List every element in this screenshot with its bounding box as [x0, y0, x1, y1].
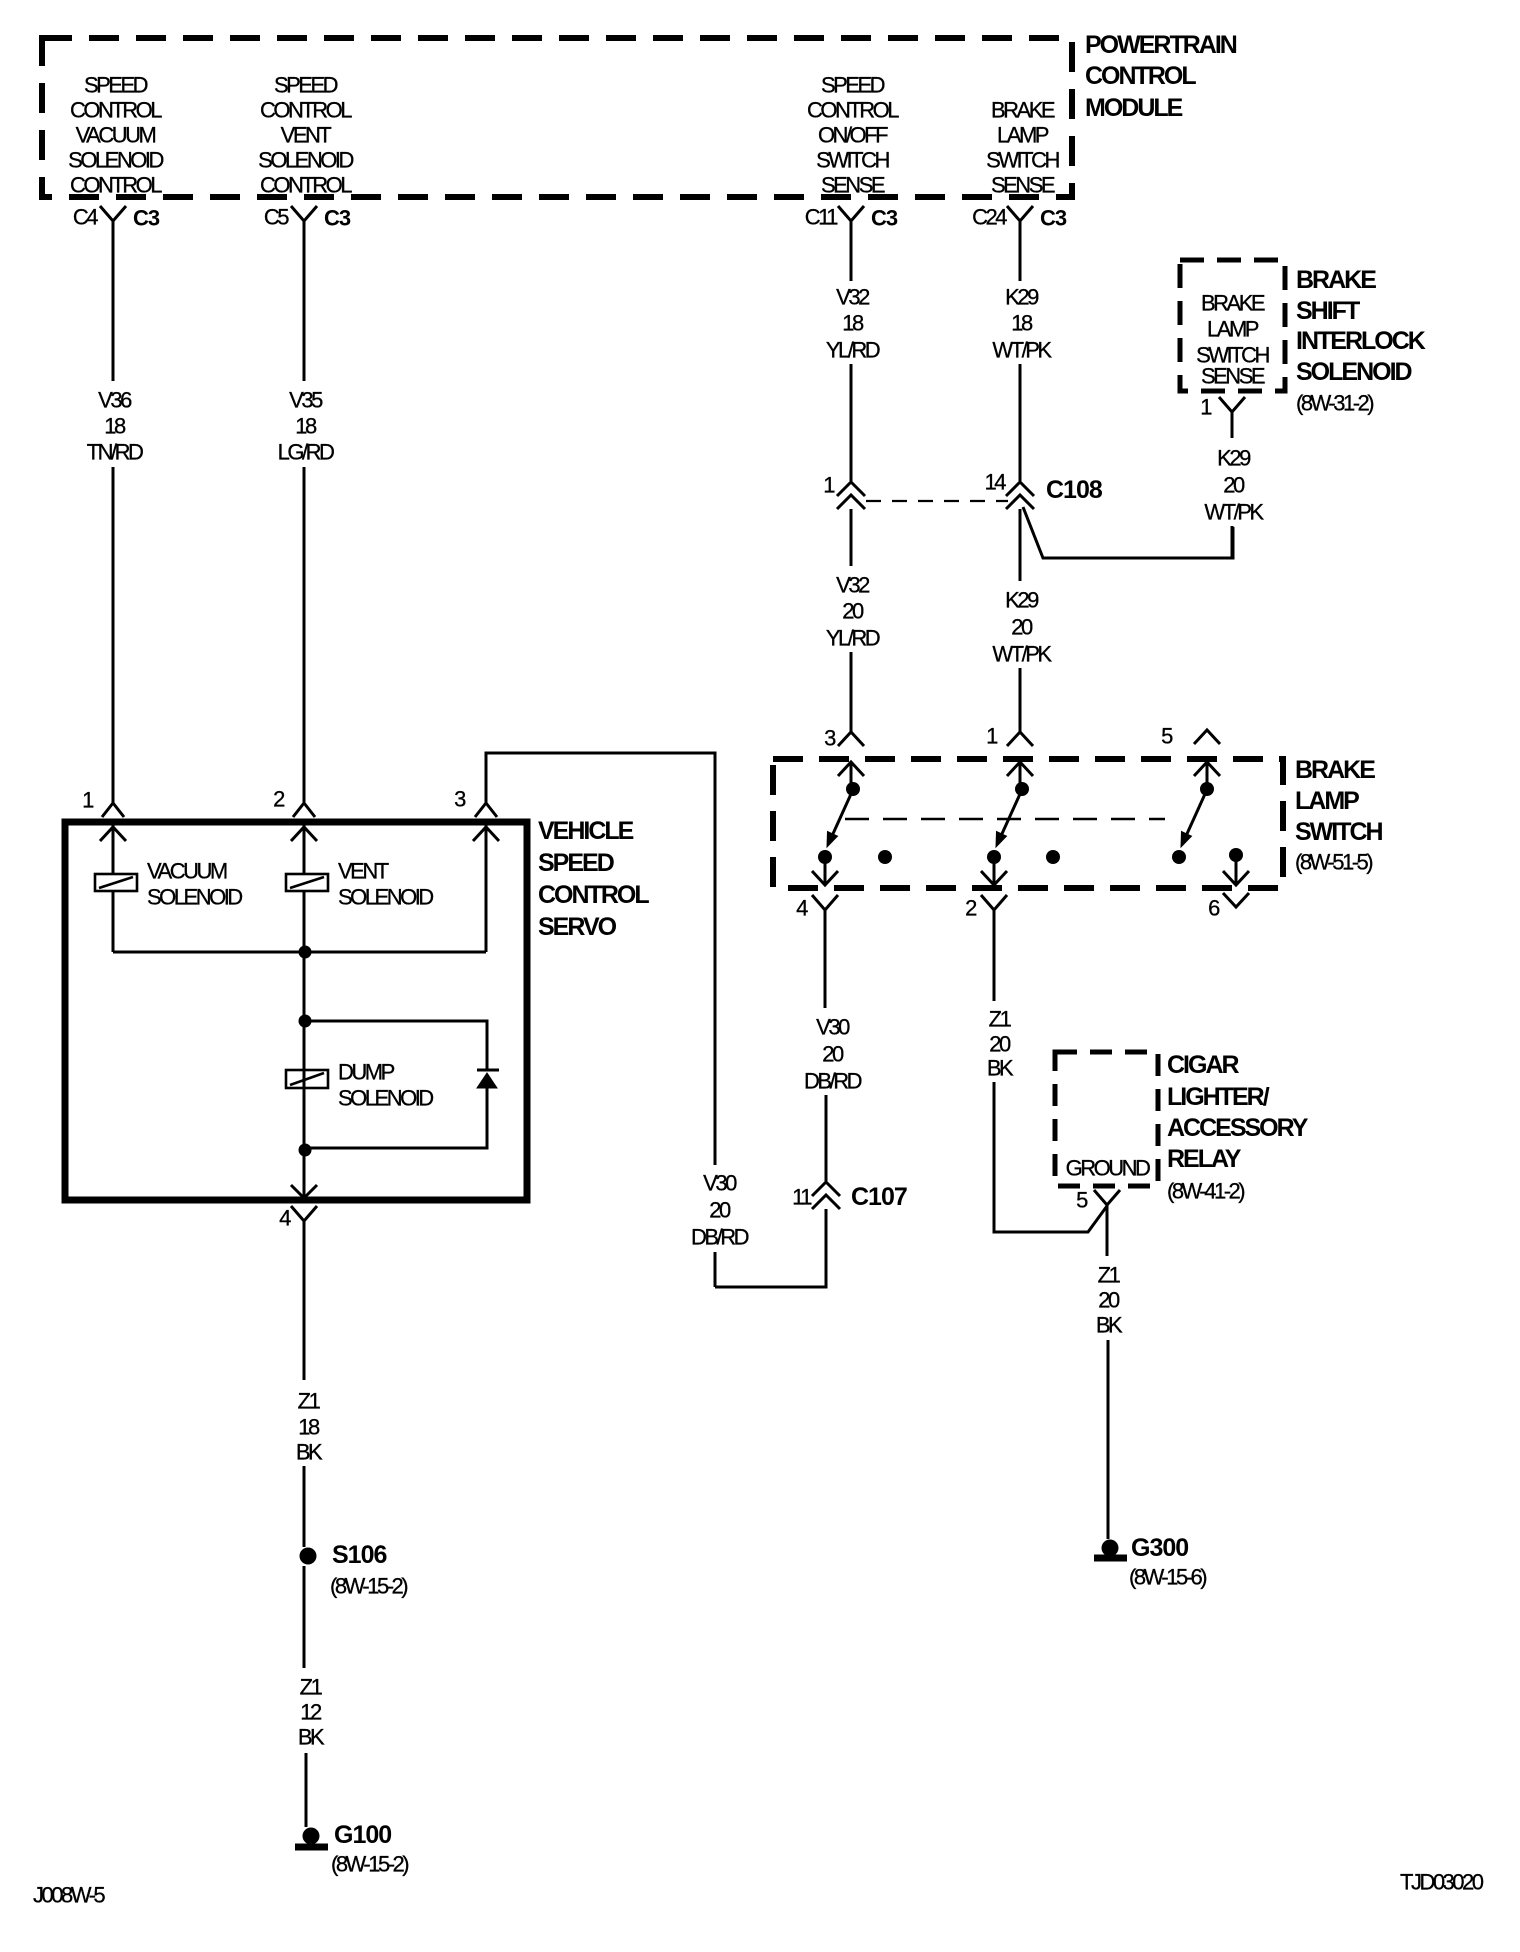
servo pin 2 connector Y — [293, 803, 315, 817]
svg-text:Z1: Z1 — [1098, 1263, 1121, 1288]
wire C108 to brake shift interlock branch — [1023, 507, 1233, 558]
wire label K29 20 WT/PK interlock — [1204, 446, 1264, 525]
svg-text:WT/PK: WT/PK — [992, 338, 1052, 363]
vacuum solenoid symbol — [95, 874, 137, 891]
svg-text:YL/RD: YL/RD — [826, 626, 880, 651]
svg-text:V32: V32 — [836, 285, 870, 310]
svg-text:BK: BK — [296, 1440, 323, 1465]
svg-text:CONTROL: CONTROL — [70, 173, 162, 198]
servo pin 4 arrow inside — [291, 1185, 317, 1198]
wire V36 lower segment — [112, 467, 115, 803]
wire label K29 20 WT/PK — [992, 588, 1052, 667]
svg-text:ON/OFF: ON/OFF — [818, 123, 888, 148]
switch idle dot right — [1046, 850, 1060, 864]
svg-text:SOLENOID: SOLENOID — [68, 148, 163, 173]
wire label V32 18 YL/RD — [826, 285, 880, 363]
svg-text:Z1: Z1 — [989, 1007, 1012, 1032]
svg-text:V32: V32 — [836, 573, 870, 598]
svg-text:J008W-5: J008W-5 — [33, 1883, 105, 1908]
wire V32 20 upper segment — [850, 509, 853, 566]
interlock box label — [1196, 291, 1269, 389]
svg-text:SOLENOID: SOLENOID — [338, 885, 433, 910]
wire bus to dump branch — [303, 952, 306, 1021]
wire Z1 20 BK to relay pin 5 — [994, 1082, 1107, 1232]
wire pin1 to vacuum solenoid — [112, 821, 115, 874]
wire Z1 20 BK from pin 2 — [993, 937, 996, 1001]
connector C5 / C3 — [264, 205, 351, 239]
svg-text:20: 20 — [709, 1198, 731, 1223]
svg-text:SOLENOID: SOLENOID — [147, 885, 242, 910]
svg-text:SOLENOID: SOLENOID — [1296, 358, 1412, 386]
svg-text:SHIFT: SHIFT — [1296, 297, 1360, 325]
wire C107 down to corner — [715, 1209, 826, 1287]
wire left V30 vertical upper and route to servo pin 3 — [486, 753, 715, 1165]
svg-text:SPEED: SPEED — [274, 73, 338, 98]
svg-text:18: 18 — [298, 1415, 320, 1440]
switch 1 contacts and blade — [812, 782, 860, 885]
interlock name label — [1296, 266, 1426, 416]
diode D1 — [477, 1070, 499, 1088]
switch idle dot left — [878, 850, 892, 864]
wire V30 to C107 — [825, 1095, 828, 1181]
PCM dashed box — [42, 38, 1072, 197]
wire V32 18 upper segment — [850, 238, 853, 281]
svg-text:CONTROL: CONTROL — [807, 98, 899, 123]
vent solenoid label — [338, 859, 433, 910]
svg-text:C3: C3 — [1040, 206, 1067, 231]
svg-text:LAMP: LAMP — [997, 123, 1049, 148]
wire label V35 18 LG/RD — [278, 388, 334, 465]
wire V35 upper segment — [303, 238, 306, 381]
svg-text:BK: BK — [987, 1056, 1014, 1081]
svg-text:MODULE: MODULE — [1085, 94, 1183, 122]
svg-text:BRAKE: BRAKE — [1296, 266, 1376, 294]
PCM label: speed control vacuum solenoid control — [68, 73, 163, 198]
wire V35 lower segment — [303, 467, 306, 803]
dump solenoid label — [338, 1060, 433, 1111]
wire V32 18 lower segment — [850, 364, 853, 481]
wire interlock K29 to C108 junction — [1231, 526, 1234, 558]
dump solenoid symbol — [286, 1070, 328, 1088]
svg-text:Z1: Z1 — [300, 1675, 323, 1700]
svg-text:V30: V30 — [816, 1015, 850, 1040]
svg-text:CONTROL: CONTROL — [538, 881, 649, 909]
svg-text:SWITCH: SWITCH — [816, 148, 889, 173]
wire label V32 20 YL/RD — [826, 573, 880, 651]
svg-text:C107: C107 — [851, 1183, 907, 1211]
svg-text:C3: C3 — [324, 206, 351, 231]
brake lamp switch pin 4 connector Y — [796, 895, 838, 937]
svg-text:SPEED: SPEED — [821, 73, 885, 98]
brake lamp switch name label — [1295, 756, 1383, 875]
wire label Z1 20 BK — [987, 1007, 1014, 1081]
servo pin 1 arrow inside — [100, 827, 126, 841]
connector C108 pin 14 chevrons — [985, 470, 1103, 510]
brake lamp switch pin 3 — [824, 726, 864, 786]
switch 3 contacts and blade — [1172, 782, 1214, 864]
svg-text:TN/RD: TN/RD — [87, 440, 143, 465]
brake lamp switch pin 2 connector Y — [965, 895, 1007, 937]
svg-text:RELAY: RELAY — [1167, 1145, 1242, 1173]
servo pin 3 arrow inside — [473, 827, 499, 841]
svg-text:14: 14 — [985, 470, 1007, 495]
svg-text:VENT: VENT — [338, 859, 389, 884]
wire label V36 18 TN/RD — [87, 388, 143, 465]
svg-text:11: 11 — [792, 1185, 812, 1210]
svg-text:C108: C108 — [1046, 476, 1103, 504]
brake lamp switch pin 5 — [1161, 724, 1220, 786]
switch 2 contacts and blade — [981, 782, 1029, 885]
svg-text:POWERTRAIN: POWERTRAIN — [1085, 31, 1237, 59]
brake lamp switch dashed box — [773, 759, 1283, 888]
svg-text:SERVO: SERVO — [538, 913, 617, 941]
svg-text:12: 12 — [300, 1700, 322, 1725]
wire K29 18 lower segment — [1019, 364, 1022, 481]
PCM label: speed control vent solenoid control — [258, 73, 353, 198]
servo name label — [538, 817, 649, 941]
wire pin2 to vent solenoid — [303, 821, 306, 874]
wire left V30 vertical lower — [714, 1252, 717, 1287]
svg-text:SOLENOID: SOLENOID — [338, 1086, 433, 1111]
splice S106 — [300, 1541, 408, 1599]
svg-text:LG/RD: LG/RD — [278, 440, 334, 465]
connector C108 pin 1 chevrons — [823, 473, 865, 510]
svg-text:SENSE: SENSE — [821, 173, 885, 198]
servo pin 4 connector Y — [291, 1206, 317, 1248]
svg-text:YL/RD: YL/RD — [826, 338, 880, 363]
svg-text:SWITCH: SWITCH — [986, 148, 1059, 173]
C108 dashed connector line — [866, 500, 1008, 502]
vehicle speed control servo box — [65, 822, 527, 1200]
svg-text:CONTROL: CONTROL — [1085, 62, 1196, 90]
svg-text:V36: V36 — [98, 388, 132, 413]
svg-text:20: 20 — [1011, 615, 1033, 640]
diode branch bottom wire — [307, 1088, 487, 1148]
svg-text:V30: V30 — [703, 1171, 737, 1196]
wire V32 20 lower segment — [850, 652, 853, 732]
svg-text:DB/RD: DB/RD — [804, 1069, 862, 1094]
wire pin3 down inside servo — [485, 821, 488, 952]
svg-text:Z1: Z1 — [298, 1389, 321, 1414]
relay pin 5 connector Y — [1076, 1188, 1120, 1257]
ground G100 — [295, 1821, 408, 1877]
svg-text:VENT: VENT — [281, 123, 332, 148]
svg-text:VACUUM: VACUUM — [76, 123, 156, 148]
svg-text:ACCESSORY: ACCESSORY — [1167, 1114, 1309, 1142]
wire below S106 — [303, 1566, 306, 1668]
svg-text:18: 18 — [842, 311, 864, 336]
wire K29 20 upper segment — [1019, 509, 1022, 581]
junction dot dump bottom — [299, 1144, 312, 1157]
ground G300 — [1094, 1534, 1206, 1590]
svg-text:BK: BK — [298, 1725, 325, 1750]
svg-text:SWITCH: SWITCH — [1295, 818, 1383, 846]
svg-text:20: 20 — [822, 1042, 844, 1067]
connector C107 chevrons — [792, 1182, 907, 1211]
svg-text:20: 20 — [1223, 473, 1245, 498]
svg-text:C4: C4 — [73, 205, 98, 230]
brake shift interlock solenoid box — [1180, 260, 1285, 391]
svg-text:(8W-51-5): (8W-51-5) — [1295, 850, 1372, 875]
svg-text:C3: C3 — [871, 206, 898, 231]
svg-text:SPEED: SPEED — [84, 73, 148, 98]
svg-text:TJD03020: TJD03020 — [1400, 1870, 1484, 1895]
svg-text:C3: C3 — [133, 206, 160, 231]
svg-text:CONTROL: CONTROL — [70, 98, 162, 123]
wire dump bottom to pin 4 — [303, 1150, 306, 1197]
diode branch top wire — [305, 1021, 487, 1070]
PCM label: brake lamp switch sense — [986, 98, 1059, 198]
wire vacuum solenoid to bus — [112, 891, 115, 952]
module name: POWERTRAIN CONTROL MODULE — [1085, 31, 1237, 122]
svg-text:DB/RD: DB/RD — [691, 1225, 749, 1250]
pin 6 contact and stub — [1223, 848, 1249, 885]
wire label Z1 20 BK ground leg — [1096, 1263, 1123, 1338]
brake lamp switch pin 1 — [986, 724, 1033, 786]
svg-text:(8W-41-2): (8W-41-2) — [1167, 1179, 1244, 1204]
servo pin 2 arrow inside — [291, 827, 317, 841]
svg-text:G300: G300 — [1131, 1534, 1188, 1562]
svg-text:18: 18 — [104, 414, 126, 439]
svg-text:SOLENOID: SOLENOID — [258, 148, 353, 173]
svg-text:VACUUM: VACUUM — [147, 859, 227, 884]
brake lamp switch pin 6 chevron — [1208, 893, 1249, 921]
wire label V30 20 DB/RD right — [804, 1015, 862, 1094]
wire to G100 — [305, 1753, 308, 1827]
wire V36 upper segment — [112, 238, 115, 381]
svg-text:LIGHTER/: LIGHTER/ — [1167, 1083, 1270, 1111]
interlock pin 1 connector Y — [1200, 395, 1245, 439]
PCM label: speed control on/off switch sense — [807, 73, 899, 198]
wire K29 20 lower segment — [1019, 668, 1022, 732]
servo pin 3 connector Y — [475, 803, 497, 817]
junction dot bus — [299, 946, 312, 959]
wire K29 18 upper segment — [1019, 238, 1022, 281]
connector C11 / C3 — [805, 205, 898, 239]
bus wire inside servo — [113, 951, 486, 954]
svg-text:LAMP: LAMP — [1295, 787, 1359, 815]
vent solenoid symbol — [286, 874, 328, 891]
svg-text:WT/PK: WT/PK — [1204, 500, 1264, 525]
svg-text:C11: C11 — [805, 205, 838, 230]
svg-text:18: 18 — [1011, 311, 1033, 336]
svg-text:S106: S106 — [332, 1541, 386, 1569]
svg-text:CIGAR: CIGAR — [1167, 1051, 1240, 1079]
svg-text:K29: K29 — [1217, 446, 1251, 471]
svg-text:CONTROL: CONTROL — [260, 173, 352, 198]
svg-text:G100: G100 — [334, 1821, 391, 1849]
svg-text:C5: C5 — [264, 205, 289, 230]
connector C24 / C3 — [972, 205, 1067, 239]
svg-text:(8W-31-2): (8W-31-2) — [1296, 391, 1373, 416]
svg-text:DUMP: DUMP — [338, 1060, 395, 1085]
svg-text:INTERLOCK: INTERLOCK — [1296, 327, 1426, 355]
svg-text:(8W-15-2): (8W-15-2) — [330, 1574, 407, 1599]
wire to G300 — [1107, 1340, 1110, 1539]
cigar lighter/accessory relay box — [1055, 1052, 1158, 1186]
svg-text:C24: C24 — [972, 205, 1007, 230]
svg-text:20: 20 — [842, 599, 864, 624]
svg-text:V35: V35 — [289, 388, 323, 413]
wire Z1 18 BK lower — [303, 1466, 306, 1547]
svg-text:(8W-15-6): (8W-15-6) — [1129, 1565, 1206, 1590]
svg-text:BRAKE: BRAKE — [1201, 291, 1265, 316]
wire vent solenoid to bus — [303, 891, 306, 952]
wire V30 from pin 4 upper — [824, 937, 827, 1008]
svg-text:K29: K29 — [1005, 285, 1039, 310]
svg-text:WT/PK: WT/PK — [992, 642, 1052, 667]
wire Z1 18 BK upper — [303, 1248, 306, 1380]
svg-text:20: 20 — [1098, 1288, 1120, 1313]
svg-text:(8W-15-2): (8W-15-2) — [331, 1852, 408, 1877]
svg-text:K29: K29 — [1005, 588, 1039, 613]
svg-text:SENSE: SENSE — [991, 173, 1055, 198]
svg-text:BRAKE: BRAKE — [991, 98, 1055, 123]
svg-text:18: 18 — [295, 414, 317, 439]
svg-text:BRAKE: BRAKE — [1295, 756, 1375, 784]
wire label V30 20 DB/RD left — [691, 1171, 749, 1250]
wire label K29 18 WT/PK — [992, 285, 1052, 363]
svg-text:GROUND: GROUND — [1066, 1156, 1150, 1181]
svg-text:SPEED: SPEED — [538, 849, 614, 877]
wire label Z1 12 BK — [298, 1675, 325, 1750]
junction dot dump top — [299, 1015, 312, 1028]
wire label Z1 18 BK — [296, 1389, 323, 1465]
vacuum solenoid label — [147, 859, 242, 910]
svg-text:20: 20 — [989, 1032, 1011, 1057]
svg-text:VEHICLE: VEHICLE — [538, 817, 634, 845]
svg-text:LAMP: LAMP — [1207, 317, 1259, 342]
wire through dump solenoid — [303, 1021, 306, 1150]
relay name label — [1167, 1051, 1309, 1204]
servo pin 1 connector Y — [102, 803, 124, 817]
svg-text:CONTROL: CONTROL — [260, 98, 352, 123]
svg-text:SENSE: SENSE — [1201, 364, 1265, 389]
svg-text:BK: BK — [1096, 1313, 1123, 1338]
connector C4 / C3 — [73, 205, 160, 239]
switch linkage dashed line — [845, 818, 1165, 821]
